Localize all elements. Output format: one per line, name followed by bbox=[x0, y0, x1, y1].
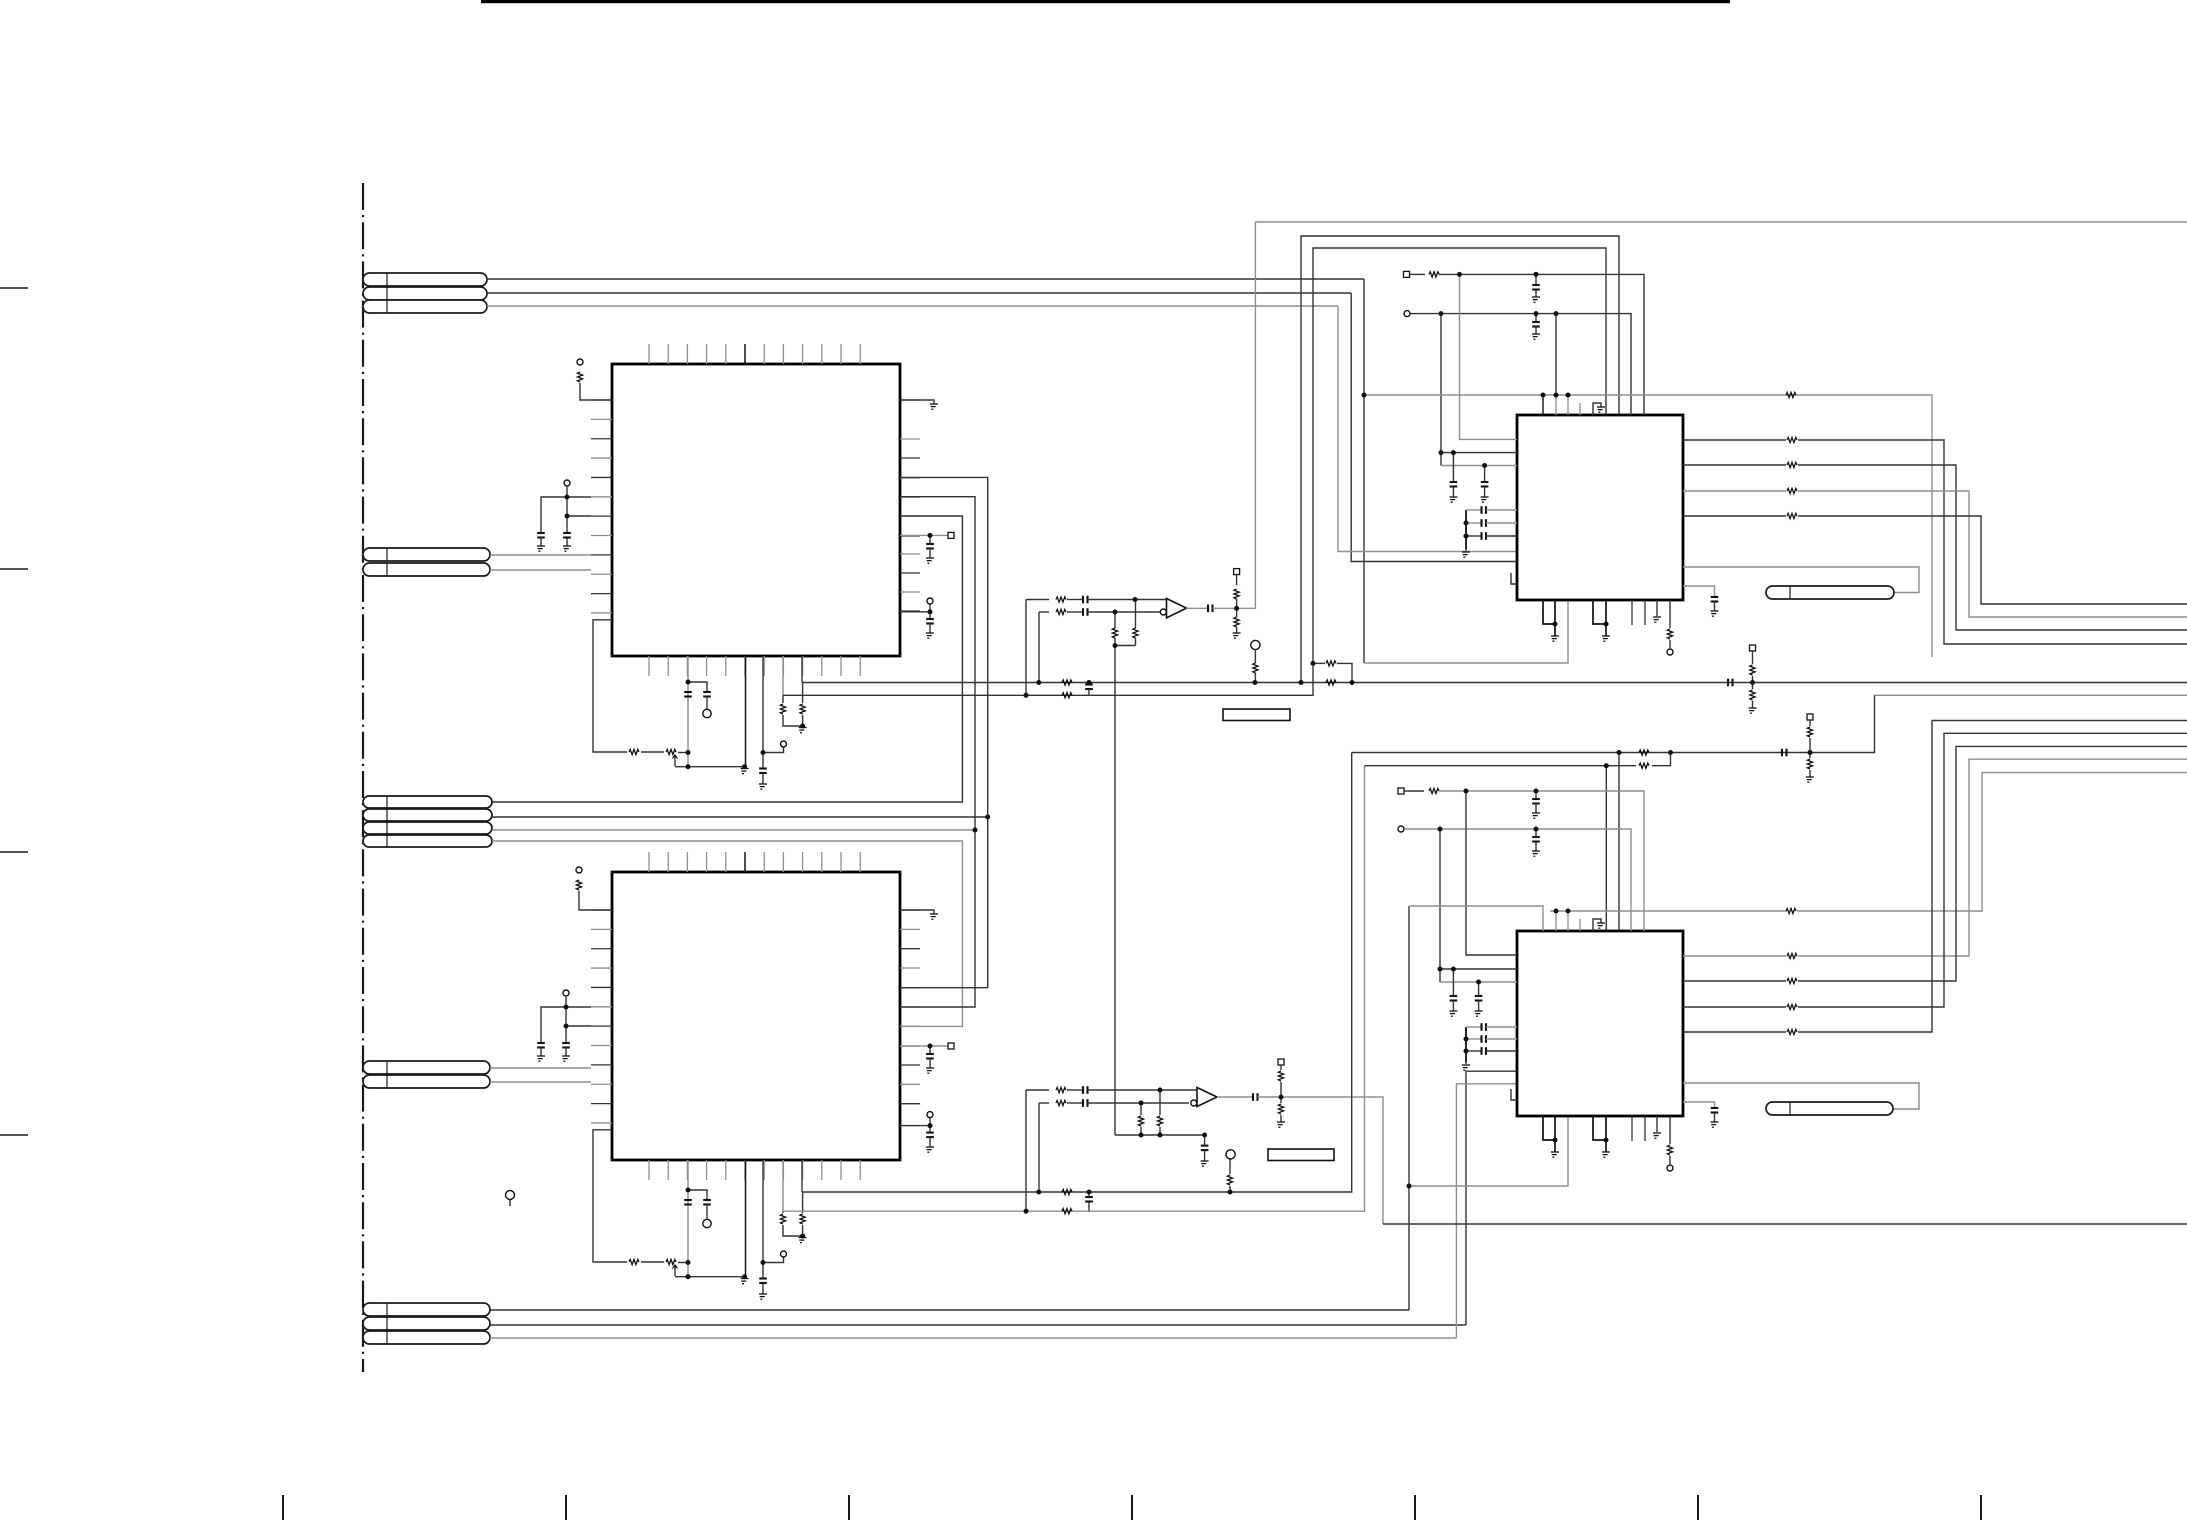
ground (763,784) bbox=[759, 784, 767, 789]
wire C6 to circle bbox=[706, 697, 708, 710]
wire R16 to C bbox=[1067, 611, 1083, 613]
hook ground wire 2 bbox=[1593, 919, 1601, 931]
IC2 left pin 11 bbox=[591, 1103, 612, 1105]
left alignment tick 4 bbox=[0, 1134, 28, 1136]
caps trio 2 row 1027 b bbox=[1486, 1026, 1517, 1028]
resistor R35 bbox=[1429, 272, 1439, 277]
junction dot (1089,1192) bbox=[1087, 1190, 1092, 1195]
junction dot (567,516) bbox=[565, 514, 570, 519]
hook ground (1601,407) bbox=[1597, 407, 1605, 412]
row 1102 to cap bbox=[1683, 1102, 1715, 1108]
ground (1478.6,1011) bbox=[1475, 1011, 1483, 1016]
junction dot (1556,395) bbox=[1554, 393, 1559, 398]
sq to R19 bbox=[1236, 575, 1238, 585]
opamp2 input path bottom bbox=[1039, 1102, 1049, 1104]
opamp2 inverting bubble bbox=[1191, 1100, 1197, 1106]
R41 to circle bbox=[1669, 1156, 1671, 1164]
wire CN-D1 to IC2 bbox=[490, 1067, 591, 1069]
junction dot (930,611.8) bbox=[928, 609, 933, 614]
sq to R26 bbox=[1280, 1065, 1282, 1070]
junction dot (1466,1039) bbox=[1464, 1037, 1469, 1042]
caps trio 2 row 1039 b bbox=[1486, 1038, 1517, 1040]
rail row 1192 bbox=[802, 753, 1352, 1193]
connector pill right-top bbox=[1766, 586, 1894, 599]
IC1 left pin 6 bbox=[591, 496, 612, 498]
resistor R6 (802) bbox=[800, 704, 805, 714]
junction dot (1453.4,969) bbox=[1451, 967, 1456, 972]
IC2 left pin 12 bbox=[591, 1122, 612, 1124]
IC1 bottom pin 7 bbox=[763, 656, 765, 676]
resistor R8 trimmer bbox=[666, 1259, 676, 1264]
R34 to gnd bbox=[1809, 770, 1811, 777]
capacitor at (930,1054) bbox=[926, 1053, 934, 1055]
IC3 bottom pin 1555 L bbox=[1554, 600, 1556, 636]
junction dot (1441,452.6) bbox=[1439, 450, 1444, 455]
bus2 gnd lead bbox=[1465, 1062, 1467, 1064]
IC1 right pin stub 9 bbox=[900, 572, 920, 574]
IC2 left pin 5 bbox=[591, 986, 612, 988]
capacitor C12 inline bbox=[1082, 1086, 1084, 1094]
capacitor C10 inline bbox=[1082, 608, 1084, 616]
resistor R17 bbox=[1133, 628, 1138, 638]
resistor R39 bbox=[1429, 788, 1439, 793]
capacitor C14 bbox=[1201, 1145, 1209, 1147]
circle to R28 bbox=[1229, 1159, 1231, 1174]
wire dot to cap IC1 bbox=[929, 535, 931, 544]
IC1 left pin 12 bbox=[591, 612, 612, 614]
connector pin pill CN group B-2 bbox=[363, 563, 490, 576]
IC1 left pin 5 bbox=[591, 476, 612, 478]
junction dot (1606,1140) bbox=[1604, 1138, 1609, 1143]
R28 to rail bbox=[1229, 1186, 1231, 1192]
IC2 right pin stub 10 bbox=[900, 1083, 920, 1085]
wire IC2 pin1125 to node bbox=[900, 1125, 930, 1127]
test pad square (1752.5,648) bbox=[1750, 645, 1756, 651]
IC3 right row 440 to corner bbox=[1798, 440, 2187, 644]
capacitor C25 bbox=[1532, 798, 1540, 800]
sq1810 to R33 bbox=[1809, 720, 1811, 726]
wire R23 to C bbox=[1067, 1102, 1083, 1104]
wire R10 up bbox=[802, 1192, 804, 1213]
junction dot (802.6,1236) bbox=[800, 1234, 805, 1239]
net A3 vertical V1338 bbox=[1338, 306, 1517, 552]
wire IC1 pin620 left-down feed bbox=[593, 620, 627, 752]
junction dot (1752.5,682.5) bbox=[1750, 680, 1755, 685]
caps trio 2 row 1039 bbox=[1466, 1038, 1481, 1040]
capacitor C16 inline row752 bbox=[1781, 749, 1783, 757]
junction dot (1364,395) bbox=[1362, 393, 1367, 398]
junction dot (1038.8,1192) bbox=[1036, 1190, 1041, 1195]
V1556 from circle row bbox=[1555, 314, 1557, 395]
capacitor C20 bbox=[1481, 481, 1489, 483]
test pad square (1810,717) bbox=[1807, 714, 1813, 720]
ground below C2 bbox=[563, 546, 571, 551]
output to corner 1255 bbox=[1213, 222, 1256, 608]
ground (1752.5,708) bbox=[1749, 708, 1757, 713]
ground below C3 bbox=[537, 1056, 545, 1061]
supply terminal circle C-cluster IC2 bbox=[563, 990, 569, 996]
IC1 left pin 9 bbox=[591, 554, 612, 556]
pull-up terminal circle above R2 bbox=[576, 867, 582, 873]
circle row 313.6 bbox=[1410, 314, 1631, 415]
branch to C8 bbox=[688, 1190, 707, 1200]
wire IC1 pin802 down bbox=[801, 656, 803, 683]
capacitor at (930,619) bbox=[926, 618, 934, 620]
IC4 right row 956 to corner bbox=[1798, 759, 2187, 956]
junction dot (1026,695.3) bbox=[1024, 693, 1029, 698]
IC3 right row 516 to corner bbox=[1798, 516, 2187, 604]
C25 lead bbox=[1535, 791, 1537, 799]
IC2 top pin 6 bbox=[744, 852, 746, 872]
IC2 left pin 10 bbox=[591, 1083, 612, 1085]
resistor R9 (783) bbox=[780, 1214, 785, 1224]
IC3 right row 440 bbox=[1683, 439, 1786, 441]
gray row 395 bbox=[1364, 394, 1796, 396]
C14 leads bbox=[1204, 1135, 1206, 1146]
ground (1466,552) bbox=[1462, 552, 1470, 557]
IC3 bottom pin 1543 L bbox=[1543, 600, 1555, 624]
bottom alignment tick 3 bbox=[848, 1495, 850, 1520]
junction dot (1204.6,1135) bbox=[1202, 1133, 1207, 1138]
IC2 left pin 8 bbox=[591, 1045, 612, 1047]
junction dot (1555,624) bbox=[1553, 622, 1558, 627]
feedback R17 drop bbox=[1135, 600, 1137, 629]
wire C12 to opamp+ bbox=[1088, 1089, 1198, 1091]
junction dot (1301,682.5) bbox=[1299, 680, 1304, 685]
test pad square (1236.6,571.6) bbox=[1234, 569, 1240, 575]
ground (744.6,1278.5) bbox=[741, 1279, 749, 1284]
resistor R1 at IC1 top-left bbox=[577, 372, 582, 382]
IC1 left pin 7 bbox=[591, 515, 612, 517]
IC1 left pin 8 bbox=[591, 535, 612, 537]
resistor R3 inline row752 bbox=[629, 749, 639, 754]
junction dot (1141,1135) bbox=[1139, 1133, 1144, 1138]
terminal circle (1670,1168) bbox=[1667, 1165, 1673, 1171]
IC2 right pin stub 7 bbox=[900, 1025, 920, 1027]
net A1 vertical V1364 bbox=[1363, 279, 1365, 663]
wire C4 feed bbox=[565, 1026, 567, 1043]
capacitor C3 shunt bbox=[537, 1042, 545, 1044]
IC2 top pin 5 bbox=[725, 852, 727, 872]
resistor R42-2 bbox=[1787, 1004, 1797, 1009]
wire IC2 right pin to ground bbox=[900, 910, 934, 914]
junction dot (1409,1186) bbox=[1407, 1184, 1412, 1189]
cap 1089b lead2 bbox=[1088, 1202, 1090, 1212]
cap 1089 lead bbox=[1088, 683, 1090, 685]
R33 to row bbox=[1809, 738, 1811, 753]
IC1 top pin 10 bbox=[821, 344, 823, 364]
row911 to corner 1982 bbox=[1797, 773, 2187, 911]
V1440 net bbox=[1440, 314, 1442, 453]
junction dot (1115,612) bbox=[1113, 610, 1118, 615]
reference label box 1 bbox=[1223, 709, 1290, 721]
connector pin pill CN group B-1 bbox=[363, 548, 490, 561]
capacitor between rails at 1089 bbox=[1085, 683, 1093, 685]
resistor R10 (802) bbox=[800, 1214, 805, 1224]
IC4 right row 1007 bbox=[1683, 1006, 1786, 1008]
IC2 right pin stub 8 bbox=[900, 1045, 920, 1047]
resistor R28 bbox=[1227, 1175, 1232, 1185]
caps trio 2 row 1051 b bbox=[1486, 1050, 1517, 1052]
ground (802.6,727.5) bbox=[799, 728, 807, 733]
C25 gnd lead bbox=[1535, 804, 1537, 814]
wire R6 low bbox=[802, 715, 804, 726]
IC4 top pin 1556 bbox=[1555, 911, 1557, 931]
out to R27 bbox=[1280, 1097, 1282, 1103]
terminal circle (1255,645) bbox=[1251, 640, 1260, 649]
ground at IC2 right pin bbox=[930, 914, 938, 919]
gray row 906 bbox=[1409, 906, 1543, 931]
IC1 top pin 2 bbox=[667, 344, 669, 364]
IC IC4 (driver, bottom-right) bbox=[1517, 931, 1683, 1116]
IC2 top pin 8 bbox=[782, 852, 784, 872]
ground (1657,1133) bbox=[1653, 1133, 1661, 1138]
junction dot (1555,1140) bbox=[1553, 1138, 1558, 1143]
wire IC2 pin783 down bbox=[782, 1160, 784, 1211]
C33 gnd lead bbox=[1714, 1113, 1716, 1123]
IC IC3 (driver, top-right) bbox=[1517, 415, 1683, 600]
row 752.5 bbox=[1352, 695, 1875, 752]
resistor R13 bbox=[1750, 665, 1755, 675]
wire to IC1 pin y497 bbox=[567, 496, 591, 498]
terminal circle below C6 bbox=[703, 709, 711, 717]
capacitor C22 series bbox=[1480, 519, 1482, 527]
IC2 bottom pin 3 bbox=[686, 1160, 688, 1180]
opamp1 vertical V1026 bbox=[1025, 600, 1027, 696]
capacitor C8 at 707 bbox=[703, 1199, 711, 1201]
wire C10 to opamp- bbox=[1088, 611, 1161, 613]
connector pill right-bottom bbox=[1766, 1102, 1893, 1115]
resistor R12 inline rail-695 bbox=[1062, 693, 1072, 698]
resistor R34 bbox=[1807, 759, 1812, 769]
IC1 bottom pin 1 bbox=[648, 656, 650, 676]
wire IC2 pin1130 left-down feed bbox=[593, 1130, 627, 1262]
terminal circle (783.5,744) bbox=[781, 741, 787, 747]
input pad square (1406.5,274.4) bbox=[1404, 271, 1410, 277]
IC2 right pin stub 9 bbox=[900, 1064, 920, 1066]
ground below C4 bbox=[562, 1056, 570, 1061]
connector pin pill CN group A-3 bbox=[363, 300, 487, 313]
IC3 right row 516 bbox=[1683, 515, 1786, 517]
IC1 left pin 3 bbox=[591, 438, 612, 440]
wire IC1 right pin to ground bbox=[900, 400, 934, 404]
IC2 top pin 12 bbox=[859, 852, 861, 872]
IC1 top pin 3 bbox=[686, 344, 688, 364]
C26 gnd lead bbox=[1535, 842, 1537, 852]
ground (1606,636) bbox=[1602, 636, 1610, 641]
junction dot (763,752.5) bbox=[761, 750, 766, 755]
IC2 right pin stub 5 bbox=[900, 987, 920, 989]
V1453 down bbox=[1452, 453, 1454, 482]
IC1 top pin 6 bbox=[744, 344, 746, 364]
long vertical V1115 bbox=[1114, 646, 1116, 1136]
resistor R24 bbox=[1157, 1116, 1162, 1126]
wire CN-D2 to IC2 bbox=[490, 1081, 591, 1083]
wire IC1 pin783 down bbox=[782, 656, 784, 695]
row 765.7 bbox=[1365, 765, 1637, 767]
resistor R22 bbox=[1056, 1087, 1066, 1092]
IC2 top pin 3 bbox=[686, 852, 688, 872]
ground (1536,851) bbox=[1532, 851, 1540, 856]
bottom alignment tick 2 bbox=[565, 1495, 567, 1520]
IC4 right row 981 to corner bbox=[1798, 746, 2187, 981]
ground below (930,1147) bbox=[926, 1147, 934, 1152]
junction dot (1135,599.5) bbox=[1133, 597, 1138, 602]
junction dot (1236.6,608.3) bbox=[1234, 606, 1239, 611]
ground (744.6,768.5) bbox=[741, 769, 749, 774]
resistor R19 bbox=[1234, 589, 1239, 599]
connector pin pill CN group C-1 bbox=[363, 796, 492, 808]
terminal circle below C8 bbox=[703, 1219, 711, 1227]
resistor R36 row395 bbox=[1786, 392, 1796, 397]
mounting terminal circle (510,1195) bbox=[506, 1191, 515, 1200]
ground (1810,777) bbox=[1806, 777, 1814, 782]
wire R22 to C bbox=[1067, 1089, 1083, 1091]
capacitor C28 bbox=[1475, 995, 1483, 997]
wire to circle 783.5b bbox=[763, 1257, 784, 1262]
junction dot (567,497) bbox=[565, 495, 570, 500]
ground (1466,1065) bbox=[1462, 1065, 1470, 1070]
IC2 bottom pin 9 bbox=[802, 1160, 804, 1180]
IC2 left pin 9 bbox=[591, 1064, 612, 1066]
wire 783b to resistor bbox=[782, 1211, 784, 1213]
net E2 row bbox=[490, 1324, 1466, 1326]
IC2 right pin stub 2 bbox=[900, 928, 920, 930]
junction dot (688,682) bbox=[686, 680, 691, 685]
net V975 pinIC1-497 to pinIC2-1007 bbox=[900, 497, 975, 1007]
wire IC1 pin688 chain bbox=[687, 656, 689, 767]
R37 to circle bbox=[1669, 640, 1671, 648]
left alignment tick 3 bbox=[0, 851, 28, 853]
opamp2 vertical V1026b bbox=[1025, 1090, 1027, 1211]
IC1 bottom pin 6 bbox=[744, 656, 746, 676]
resistor R25 bbox=[1138, 1116, 1143, 1126]
capacitor at (763,768.5) bbox=[759, 767, 767, 769]
IC1 bottom pin 9 bbox=[802, 656, 804, 676]
IC2 right pin stub 6 bbox=[900, 1006, 920, 1008]
IC2 top pin 10 bbox=[821, 852, 823, 872]
connector pin pill CN group C-3 bbox=[363, 822, 492, 834]
sq to R35 bbox=[1410, 273, 1425, 275]
hook ground (1601,923) bbox=[1597, 923, 1605, 928]
terminal circle (930,1114.6) bbox=[927, 1112, 933, 1118]
IC1 right pin stub 8 bbox=[900, 553, 920, 555]
resistor R11 inline rail-682 bbox=[1062, 680, 1072, 685]
trimmer arrow R8 bbox=[673, 1265, 678, 1276]
net E3 row bbox=[490, 1337, 1456, 1339]
IC1 bottom pin 12 bbox=[859, 656, 861, 676]
ground (1453.4,497) bbox=[1449, 497, 1457, 502]
IC3 bottom pin 1593 L bbox=[1593, 600, 1606, 624]
capacitor C13 inline bbox=[1082, 1099, 1084, 1107]
opamp1 inverting bubble bbox=[1160, 609, 1166, 615]
top border bar bbox=[481, 0, 1730, 3]
IC1 top pin 5 bbox=[725, 344, 727, 364]
connector pin pill CN group A-1 bbox=[363, 273, 487, 286]
IC1 left pin 1 bbox=[591, 399, 612, 401]
junction dot (1089,682.5) bbox=[1087, 680, 1092, 685]
IC3 top pin 1568 bbox=[1567, 395, 1569, 415]
opamp1 input path bottom bbox=[1039, 611, 1049, 613]
capacitor C15 output bbox=[1252, 1093, 1254, 1101]
V1440b net bbox=[1439, 829, 1441, 982]
wire C3 to ground bbox=[540, 1048, 542, 1057]
opamp1 output bbox=[1187, 607, 1209, 609]
IC1 top pin 7 bbox=[763, 344, 765, 364]
junction dot (763,1262.5) bbox=[761, 1260, 766, 1265]
net V988 pinIC1-478 to pinIC2-988 bbox=[900, 477, 988, 987]
wire dot to cap IC2 bbox=[929, 1046, 931, 1054]
wire R10 low bbox=[802, 1225, 804, 1236]
wire R9 to bar bbox=[783, 1225, 803, 1236]
gray top rail 222 bbox=[1255, 221, 2187, 223]
capacitor C18 bbox=[1532, 321, 1540, 323]
wire C4 to ground bbox=[565, 1048, 567, 1057]
output to corner 1383 bbox=[1258, 1097, 1384, 1224]
reference label box 2 bbox=[1268, 1149, 1334, 1161]
caps trio 2 row 1027 bbox=[1466, 1026, 1481, 1028]
caps trio bus 2 bbox=[1465, 1027, 1467, 1062]
junction dot (1466,1051) bbox=[1464, 1049, 1469, 1054]
V1453b down bbox=[1452, 969, 1454, 996]
ground (1555,1152) bbox=[1551, 1152, 1559, 1157]
ground below (930,558) bbox=[926, 558, 934, 563]
circle row 829 bbox=[1405, 829, 1631, 931]
caps trio row 510 bbox=[1466, 509, 1481, 511]
IC4 top pin 1580 stub bbox=[1579, 919, 1581, 931]
capacitor at (930,544) bbox=[926, 543, 934, 545]
IC3 bottom pin 1632 stub bbox=[1631, 600, 1633, 625]
junction dot (1619,752.5) bbox=[1617, 750, 1622, 755]
net E3 vertical V1456 bbox=[1456, 1084, 1517, 1338]
connector pin pill CN group A-2 bbox=[363, 287, 487, 300]
junction dot (1026,1211.2) bbox=[1024, 1209, 1029, 1214]
caps trio row 536 bbox=[1466, 535, 1481, 537]
P1 staple net bbox=[1301, 236, 1619, 683]
wire 783 to resistor bbox=[782, 695, 784, 703]
resistor R42-0 bbox=[1787, 953, 1797, 958]
row 969 bbox=[1440, 968, 1517, 970]
wire to circle 783.5 bbox=[763, 747, 784, 752]
net A1 row bbox=[487, 278, 1364, 280]
wire C13 to opamp- bbox=[1088, 1102, 1190, 1104]
wire IC1 pin745 long bbox=[745, 656, 747, 767]
capacitor C7 at 688 bbox=[684, 1199, 692, 1201]
net A2 vertical V1351 bbox=[1351, 293, 1517, 562]
net C3 row bbox=[492, 829, 975, 831]
junction dot (1352,682.5) bbox=[1350, 680, 1355, 685]
IC1 right pin stub 3 bbox=[900, 457, 920, 459]
IC2 top pin 2 bbox=[667, 852, 669, 872]
row 1083 to pill hook bbox=[1683, 1083, 1919, 1109]
resistor R5 (783) bbox=[780, 704, 785, 714]
test pad square (951,535.4) bbox=[948, 532, 954, 538]
ground at IC1 right pin bbox=[930, 404, 938, 409]
IC2 left pin 4 bbox=[591, 967, 612, 969]
IC2 top pin 11 bbox=[840, 852, 842, 872]
wire IC2 pin1046 to node bbox=[900, 1045, 951, 1047]
resistor R33 bbox=[1807, 727, 1812, 737]
input circle (1407,313.6) bbox=[1404, 311, 1410, 317]
IC2 bottom pin 5 bbox=[725, 1160, 727, 1180]
junction dot (1466,523) bbox=[1464, 521, 1469, 526]
wire R15 to C bbox=[1067, 599, 1083, 601]
ground (1606,1152) bbox=[1602, 1152, 1610, 1157]
capacitor C31 series bbox=[1480, 1035, 1482, 1043]
junction dot (1568,395) bbox=[1566, 393, 1571, 398]
terminal circle (1230,1155) bbox=[1226, 1150, 1235, 1159]
wire IC2 pin763 down bbox=[762, 1160, 764, 1279]
